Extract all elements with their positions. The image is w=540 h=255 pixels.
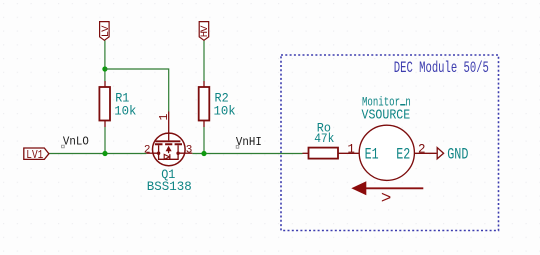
svg-text:10k: 10k (114, 103, 136, 118)
power symbol LV (100, 22, 112, 41)
transistor Q1 (BSS138) (144, 112, 192, 195)
source/drain stubs (159, 145, 179, 153)
svg-text:47k: 47k (314, 131, 334, 146)
net label VnLO (62, 136, 89, 149)
svg-text:2: 2 (418, 143, 426, 157)
svg-text:E1: E1 (365, 146, 379, 164)
current sense arrow (351, 181, 423, 209)
svg-text:BSS138: BSS138 (147, 179, 192, 194)
svg-text:HV: HV (199, 25, 211, 37)
svg-text:1: 1 (158, 114, 171, 121)
svg-text:VnLO: VnLO (63, 136, 89, 149)
substrate arrow (166, 146, 172, 151)
body diode path (159, 153, 179, 159)
svg-text:GND: GND (447, 146, 468, 164)
svg-text:LV1: LV1 (26, 149, 43, 162)
sheet name label DEC Module 50/5 (394, 60, 489, 78)
resistor R2 (199, 81, 236, 127)
controlled source U (VSOURCE Monitor_n) (347, 96, 436, 180)
svg-text:1: 1 (347, 143, 355, 157)
svg-text:E2: E2 (396, 146, 410, 164)
net label VnHI (236, 137, 262, 150)
resistor R1 (99, 81, 136, 127)
svg-text:DEC Module 50/5: DEC Module 50/5 (394, 60, 489, 78)
wire R2 bottom to VnHI wire (203, 127, 205, 154)
wire LV symbol to junction (104, 40, 106, 81)
body circle (153, 133, 186, 166)
svg-text:VnHI: VnHI (236, 137, 262, 150)
wire LV1 to Q1 source (net VnLO) (49, 153, 147, 155)
wire Ro to E1 pin (338, 152, 359, 154)
svg-text:LV: LV (100, 25, 112, 37)
junction LV / R1 / gate branch (102, 66, 107, 71)
resistor Ro (309, 121, 339, 159)
junction VnHI / R2 (201, 151, 206, 156)
junction dots inside (157, 152, 160, 155)
pin 3 (right) (178, 152, 192, 154)
hierarchical label LV1 (24, 148, 49, 162)
svg-text:>: > (381, 189, 392, 209)
svg-text:3: 3 (186, 144, 193, 156)
gate plate (155, 140, 180, 142)
junction VnLO / R1 (102, 151, 107, 156)
wire Q1 drain to Ro (net VnHI) (192, 153, 302, 155)
wire R1 bottom to VnLO wire (104, 127, 106, 154)
svg-text:VSOURCE: VSOURCE (362, 106, 411, 122)
power symbol HV (199, 22, 211, 41)
wire HV symbol to R2 (203, 40, 205, 81)
svg-text:10k: 10k (214, 103, 236, 118)
wire junction to Q1 gate (105, 69, 169, 112)
pin lines inside circle (168, 133, 170, 140)
channel segments (155, 143, 182, 145)
pin 2 line (414, 152, 436, 154)
pin 2 (left) (146, 152, 158, 154)
dashed sheet box DEC Module (281, 55, 499, 231)
pin 1 (gate, top) (168, 112, 170, 134)
hierarchical label GND (437, 146, 468, 164)
svg-text:2: 2 (144, 144, 151, 156)
wire Ro left pin stub (303, 152, 309, 154)
